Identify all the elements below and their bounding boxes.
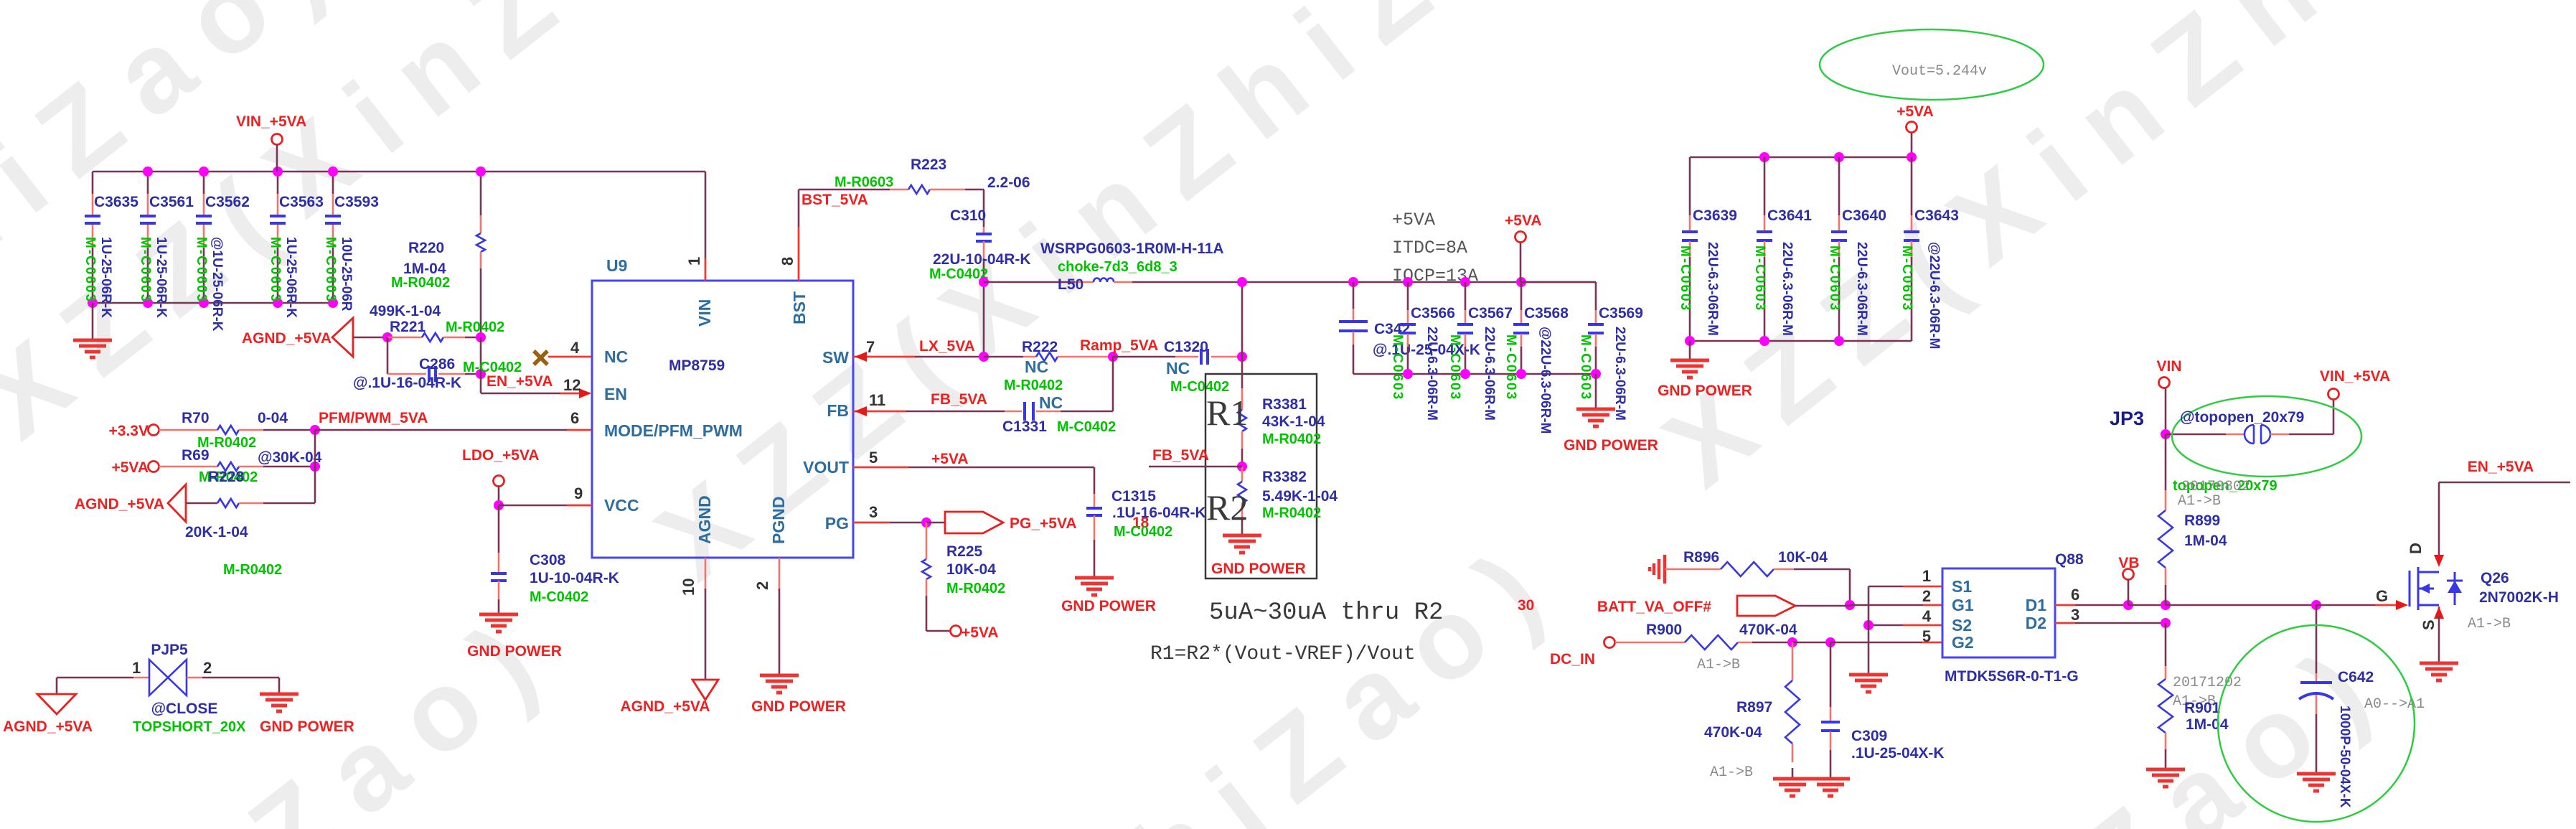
svg-text:VIN_+5VA: VIN_+5VA [2320, 368, 2390, 385]
svg-text:AGND_+5VA: AGND_+5VA [620, 698, 710, 715]
svg-text:BATT_VA_OFF#: BATT_VA_OFF# [1597, 599, 1711, 615]
svg-text:1U-25-06R-K: 1U-25-06R-K [154, 237, 169, 318]
svg-text:C3562: C3562 [205, 194, 250, 210]
svg-text:LX_5VA: LX_5VA [919, 338, 975, 355]
svg-text:1: 1 [1922, 567, 1931, 585]
svg-text:@22U-6.3-06R-M: @22U-6.3-06R-M [1538, 327, 1553, 434]
svg-text:FB_5VA: FB_5VA [1152, 447, 1209, 464]
svg-text:3: 3 [869, 503, 878, 521]
svg-text:M-C0603: M-C0603 [1503, 334, 1518, 401]
svg-text:GND POWER: GND POWER [1211, 561, 1306, 577]
svg-text:M-R0603: M-R0603 [835, 174, 893, 190]
svg-text:R69: R69 [182, 447, 210, 464]
svg-text:+5VA: +5VA [931, 451, 969, 467]
svg-text:C3567: C3567 [1468, 305, 1513, 322]
svg-text:10: 10 [680, 579, 697, 596]
svg-text:D: D [2407, 543, 2425, 554]
svg-text:M-C0603: M-C0603 [194, 237, 209, 303]
svg-text:A0-->A1: A0-->A1 [2364, 696, 2425, 713]
svg-text:D2: D2 [2026, 614, 2046, 632]
svg-text:L50: L50 [1058, 276, 1083, 293]
svg-text:R225: R225 [946, 543, 983, 560]
svg-text:470K-04: 470K-04 [1739, 622, 1797, 638]
svg-text:22U-6.3-06R-M: 22U-6.3-06R-M [1854, 242, 1869, 336]
svg-text:S: S [2420, 619, 2438, 630]
svg-text:20K-1-04: 20K-1-04 [185, 524, 248, 540]
svg-text:M-C0603: M-C0603 [1678, 245, 1693, 312]
svg-text:FB: FB [827, 401, 849, 420]
svg-text:Q88: Q88 [2055, 551, 2084, 568]
svg-text:M-C0603: M-C0603 [1899, 245, 1914, 312]
svg-text:11: 11 [869, 391, 885, 409]
svg-text:GND POWER: GND POWER [1564, 437, 1658, 454]
svg-text:2N7002K-H: 2N7002K-H [2479, 589, 2559, 606]
svg-text:R223: R223 [911, 156, 946, 173]
svg-text:C1315: C1315 [1111, 488, 1156, 505]
svg-text:2.2-06: 2.2-06 [987, 174, 1030, 191]
svg-text:Vout=5.244v: Vout=5.244v [1892, 63, 1987, 80]
svg-text:NC: NC [1025, 357, 1048, 376]
svg-text:GND POWER: GND POWER [260, 718, 354, 735]
svg-text:GND POWER: GND POWER [1061, 598, 1156, 614]
svg-text:GND POWER: GND POWER [1658, 383, 1752, 399]
svg-text:M-C0603: M-C0603 [323, 237, 338, 303]
svg-text:R1=R2*(Vout-VREF)/Vout: R1=R2*(Vout-VREF)/Vout [1150, 643, 1416, 665]
svg-text:22U-6.3-06R-M: 22U-6.3-06R-M [1612, 327, 1627, 421]
svg-text:C642: C642 [2338, 669, 2374, 685]
svg-text:C3640: C3640 [1842, 207, 1886, 224]
svg-text:+5VA: +5VA [111, 459, 149, 476]
svg-text:VIN: VIN [2156, 358, 2181, 375]
svg-text:MP8759: MP8759 [669, 357, 725, 374]
svg-text:10K-04: 10K-04 [1778, 549, 1828, 566]
svg-text:.1U-16-04R-K: .1U-16-04R-K [1112, 505, 1206, 521]
svg-text:C3569: C3569 [1599, 305, 1643, 322]
svg-text:M-R0402: M-R0402 [946, 581, 1005, 596]
svg-text:6: 6 [2071, 586, 2079, 604]
svg-text:R899: R899 [2184, 512, 2220, 529]
svg-text:PFM/PWM_5VA: PFM/PWM_5VA [319, 410, 428, 426]
svg-text:MODE/PFM_PWM: MODE/PFM_PWM [604, 421, 743, 440]
svg-text:C3568: C3568 [1524, 305, 1569, 322]
svg-text:BST: BST [790, 291, 809, 324]
svg-text:PG_+5VA: PG_+5VA [1010, 515, 1077, 532]
svg-text:S2: S2 [1952, 616, 1972, 634]
svg-text:M-C0402: M-C0402 [530, 589, 588, 605]
svg-text:2: 2 [203, 659, 212, 677]
svg-text:4: 4 [1922, 607, 1932, 625]
svg-text:20171202: 20171202 [2173, 675, 2242, 691]
svg-text:C308: C308 [530, 552, 566, 568]
svg-text:AGND: AGND [695, 495, 714, 544]
svg-text:M-R0402: M-R0402 [446, 319, 504, 335]
svg-text:10K-04: 10K-04 [946, 561, 996, 578]
svg-text:R901: R901 [2184, 700, 2221, 716]
svg-text:M-R0402: M-R0402 [1262, 431, 1321, 447]
svg-text:M-R0402: M-R0402 [223, 562, 282, 578]
svg-text:C3643: C3643 [1914, 207, 1959, 224]
svg-text:0-04: 0-04 [258, 410, 288, 426]
svg-text:G1: G1 [1952, 596, 1974, 614]
svg-text:C3561: C3561 [149, 194, 194, 210]
svg-text:BST_5VA: BST_5VA [802, 192, 868, 208]
svg-text:PG: PG [825, 514, 849, 533]
svg-text:G: G [2376, 587, 2388, 605]
svg-text:DC_IN: DC_IN [1550, 651, 1595, 668]
svg-text:A1->B: A1->B [2178, 493, 2221, 510]
svg-text:470K-04: 470K-04 [1704, 724, 1762, 741]
svg-text:22U-6.3-06R-M: 22U-6.3-06R-M [1780, 242, 1795, 336]
svg-text:S1: S1 [1952, 577, 1972, 596]
svg-text:MTDK5S6R-0-T1-G: MTDK5S6R-0-T1-G [1945, 668, 2079, 685]
svg-text:choke-7d3_6d8_3: choke-7d3_6d8_3 [1058, 259, 1177, 275]
svg-text:+5VA: +5VA [1505, 212, 1542, 229]
svg-text:C3641: C3641 [1767, 207, 1812, 224]
svg-text:5: 5 [869, 449, 878, 467]
svg-text:AGND_+5VA: AGND_+5VA [75, 496, 164, 512]
svg-text:1000P-50-04X-K: 1000P-50-04X-K [2337, 706, 2352, 808]
svg-text:+5VA: +5VA [962, 624, 999, 641]
svg-text:3: 3 [2071, 606, 2079, 624]
svg-text:M-C0603: M-C0603 [83, 237, 98, 303]
svg-text:R222: R222 [1022, 339, 1058, 355]
svg-text:43K-1-04: 43K-1-04 [1262, 413, 1325, 430]
svg-text:22U-6.3-06R-M: 22U-6.3-06R-M [1705, 242, 1720, 336]
svg-text:M-C0603: M-C0603 [1447, 334, 1462, 401]
svg-text:PJP5: PJP5 [151, 642, 188, 658]
svg-text:M-C0603: M-C0603 [1390, 334, 1405, 401]
svg-text:NC: NC [1166, 359, 1190, 378]
svg-text:7: 7 [866, 338, 875, 356]
svg-text:1: 1 [132, 659, 141, 677]
svg-text:499K-1-04: 499K-1-04 [370, 303, 441, 319]
svg-text:R3381: R3381 [1262, 396, 1307, 413]
svg-text:M-R0402: M-R0402 [1262, 505, 1321, 521]
svg-text:SW: SW [822, 348, 849, 367]
svg-text:EN: EN [604, 385, 627, 403]
svg-text:1U-25-06R-K: 1U-25-06R-K [98, 237, 113, 318]
svg-text:@.1U-16-04R-K: @.1U-16-04R-K [353, 375, 461, 391]
svg-text:R900: R900 [1646, 622, 1682, 638]
svg-text:@1U-25-06R-K: @1U-25-06R-K [210, 237, 225, 332]
svg-text:D1: D1 [2026, 596, 2047, 614]
svg-text:8: 8 [779, 257, 796, 266]
svg-text:C3563: C3563 [279, 194, 324, 210]
svg-text:R2: R2 [1206, 487, 1248, 528]
svg-text:M-R0402: M-R0402 [1004, 378, 1063, 393]
svg-text:22U-10-04R-K: 22U-10-04R-K [933, 251, 1031, 268]
svg-text:R228: R228 [208, 469, 245, 485]
svg-text:C3639: C3639 [1693, 207, 1737, 224]
svg-text:M-C0603: M-C0603 [268, 237, 283, 303]
svg-text:AGND_+5VA: AGND_+5VA [242, 330, 332, 347]
svg-text:NC: NC [1039, 393, 1063, 412]
svg-text:FB_5VA: FB_5VA [931, 391, 987, 408]
svg-text:1U-25-06R-K: 1U-25-06R-K [283, 237, 299, 318]
svg-text:U9: U9 [606, 256, 627, 275]
svg-text:10U-25-06R: 10U-25-06R [339, 237, 354, 312]
svg-text:Ramp_5VA: Ramp_5VA [1080, 337, 1158, 354]
svg-text:LDO_+5VA: LDO_+5VA [462, 447, 540, 464]
svg-text:@30K-04: @30K-04 [258, 449, 322, 466]
svg-text:VCC: VCC [604, 496, 639, 515]
svg-text:VB: VB [2118, 555, 2139, 571]
svg-text:22U-6.3-06R-M: 22U-6.3-06R-M [1424, 327, 1439, 421]
svg-text:R3382: R3382 [1262, 469, 1307, 485]
svg-text:NC: NC [604, 347, 628, 366]
svg-text:C310: C310 [950, 207, 986, 224]
svg-text:A1->B: A1->B [2468, 616, 2511, 632]
svg-text:M-C0402: M-C0402 [1114, 524, 1172, 540]
svg-text:M-R0402: M-R0402 [391, 275, 450, 291]
svg-text:M-C0603: M-C0603 [1752, 245, 1767, 312]
svg-text:EN_+5VA: EN_+5VA [486, 373, 553, 390]
svg-text:C3566: C3566 [1411, 305, 1455, 322]
svg-text:22U-6.3-06R-M: 22U-6.3-06R-M [1482, 327, 1497, 421]
svg-text:@CLOSE: @CLOSE [151, 701, 218, 717]
svg-text:R896: R896 [1683, 549, 1719, 566]
svg-text:M-C0603: M-C0603 [1827, 245, 1842, 312]
svg-text:R221: R221 [390, 319, 426, 335]
svg-text:.1U-25-04X-K: .1U-25-04X-K [1851, 745, 1945, 762]
svg-text:C286: C286 [419, 356, 455, 373]
svg-text:A1->B: A1->B [1697, 657, 1740, 673]
svg-text:@topopen_20x79: @topopen_20x79 [2180, 409, 2304, 426]
svg-text:A1->B: A1->B [1710, 764, 1753, 781]
svg-text:JP3: JP3 [2110, 408, 2144, 429]
svg-text:6: 6 [570, 409, 579, 427]
svg-text:5: 5 [1922, 627, 1931, 645]
svg-text:2: 2 [1922, 587, 1931, 605]
svg-text:30: 30 [1518, 597, 1534, 614]
svg-text:1M-04: 1M-04 [2184, 533, 2227, 549]
svg-text:ITDC=8A: ITDC=8A [1392, 238, 1467, 258]
svg-text:1: 1 [685, 257, 703, 266]
svg-text:R70: R70 [182, 410, 210, 426]
svg-text:C3635: C3635 [94, 194, 138, 210]
svg-text:1M-04: 1M-04 [2186, 716, 2229, 733]
svg-text:VIN_+5VA: VIN_+5VA [236, 113, 306, 130]
svg-text:M-C0603: M-C0603 [138, 237, 153, 303]
svg-text:AGND_+5VA: AGND_+5VA [3, 718, 93, 735]
svg-text:R1: R1 [1206, 393, 1248, 433]
svg-text:2: 2 [753, 581, 771, 590]
svg-text:9: 9 [574, 484, 583, 502]
svg-text:C1331: C1331 [1002, 418, 1047, 435]
svg-text:12: 12 [563, 376, 580, 394]
svg-text:PGND: PGND [769, 497, 788, 544]
svg-text:GND POWER: GND POWER [467, 643, 562, 660]
svg-text:M-C0402: M-C0402 [1057, 419, 1116, 435]
svg-text:+5VA: +5VA [1392, 210, 1435, 230]
svg-text:G2: G2 [1952, 633, 1974, 652]
svg-text:+3.3V: +3.3V [109, 423, 149, 439]
svg-text:C1320: C1320 [1164, 339, 1208, 355]
svg-text:Q26: Q26 [2481, 570, 2509, 586]
svg-text:4: 4 [570, 339, 580, 357]
svg-text:C309: C309 [1851, 728, 1887, 744]
svg-text:R220: R220 [408, 240, 444, 256]
svg-text:EN_+5VA: EN_+5VA [2468, 459, 2534, 475]
svg-text:TOPSHORT_20X: TOPSHORT_20X [133, 719, 246, 735]
svg-text:+5VA: +5VA [1896, 103, 1934, 120]
svg-text:GND POWER: GND POWER [751, 698, 846, 715]
svg-text:R897: R897 [1736, 699, 1772, 716]
svg-text:VIN: VIN [695, 299, 714, 327]
svg-text:M-C0603: M-C0603 [1578, 334, 1593, 401]
svg-text:C3593: C3593 [334, 194, 379, 210]
svg-text:5uA~30uA thru R2: 5uA~30uA thru R2 [1209, 599, 1443, 627]
svg-text:WSRPG0603-1R0M-H-11A: WSRPG0603-1R0M-H-11A [1040, 240, 1224, 257]
svg-text:@22U-6.3-06R-M: @22U-6.3-06R-M [1927, 242, 1942, 349]
svg-text:1U-10-04R-K: 1U-10-04R-K [530, 570, 619, 586]
svg-text:5.49K-1-04: 5.49K-1-04 [1262, 488, 1338, 505]
svg-text:VOUT: VOUT [803, 458, 849, 477]
